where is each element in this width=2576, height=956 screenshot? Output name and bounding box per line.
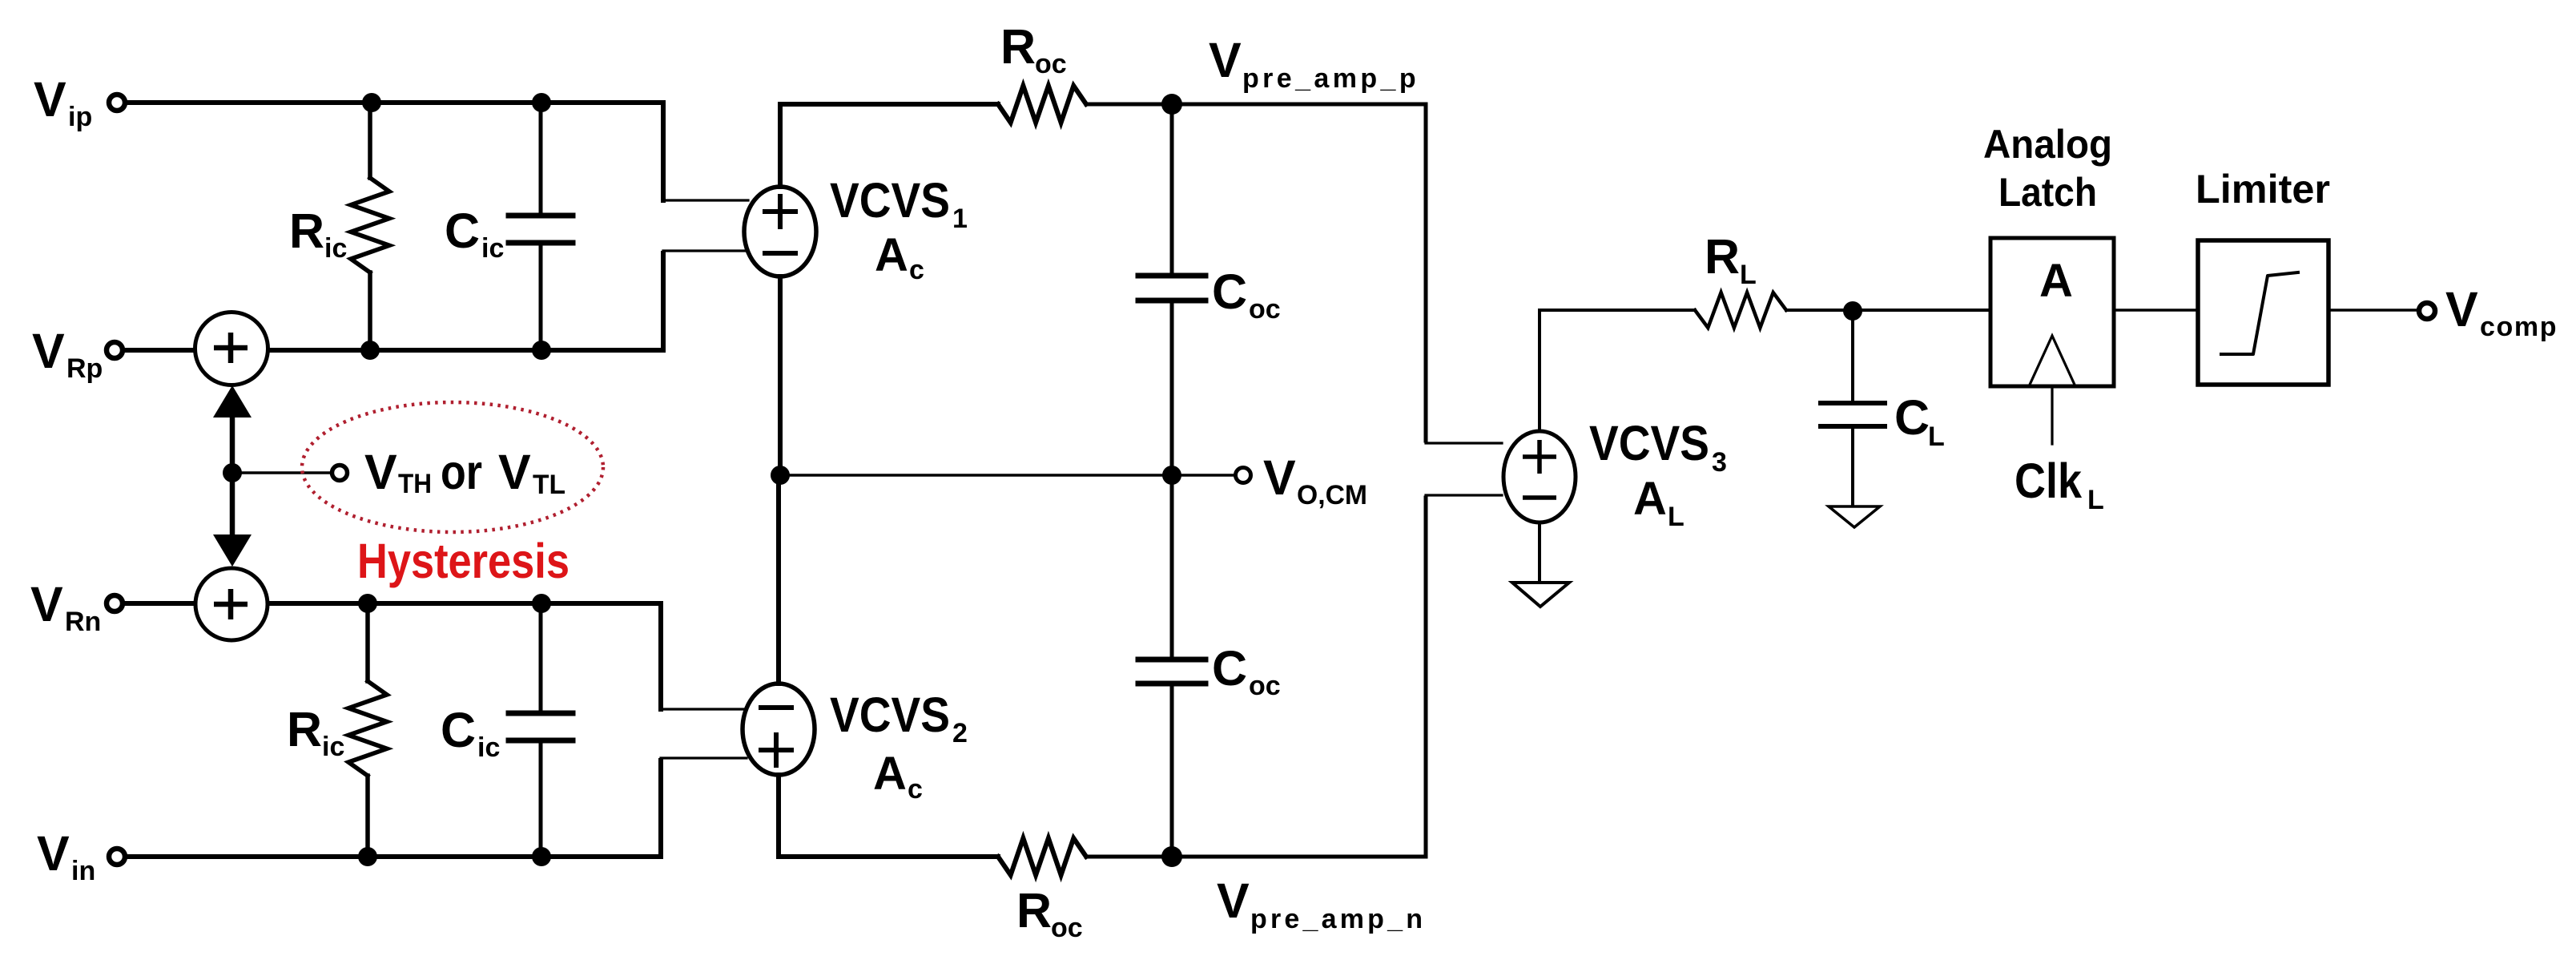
wire VRp row to VCVS1 xyxy=(268,253,663,350)
junction Vip-Ric xyxy=(362,93,381,112)
svg-text:A: A xyxy=(2039,255,2073,307)
junction Vin-Ric2 xyxy=(358,847,377,866)
svg-text:A: A xyxy=(873,748,907,800)
capacitor Cic upper xyxy=(539,103,543,212)
svg-text:ic: ic xyxy=(481,233,504,264)
limiter transfer curve xyxy=(2221,272,2298,354)
node Vin terminal xyxy=(109,849,125,865)
junction VRn-Cic2 xyxy=(532,594,551,613)
wire VCVS3 -input lead xyxy=(1426,494,1502,496)
wire VCVS3 to ground xyxy=(1538,522,1541,583)
svg-text:pre_amp_p: pre_amp_p xyxy=(1242,63,1419,94)
junction VRp-Ric xyxy=(360,341,380,360)
wire hysteresis arrow shaft xyxy=(230,397,235,556)
svg-text:pre_amp_n: pre_amp_n xyxy=(1250,904,1426,934)
junction Vin-Cic2 xyxy=(532,847,551,866)
svg-text:comp: comp xyxy=(2480,312,2558,342)
wire clock xyxy=(2051,386,2053,444)
wire VRp terminal to summer xyxy=(123,348,197,353)
block Analog Latch xyxy=(1990,238,2114,386)
capacitor Coc lower xyxy=(1170,475,1174,656)
wire Vin row xyxy=(125,760,661,857)
wire VCVS1 down to midrail xyxy=(778,276,783,475)
node VRn terminal xyxy=(107,595,123,611)
svg-text:Rp: Rp xyxy=(66,353,103,384)
hysteresis ellipse (red dotted) xyxy=(302,402,603,532)
svg-text:V: V xyxy=(1263,450,1296,505)
svg-text:L: L xyxy=(1928,422,1945,452)
resistor Roc lower xyxy=(998,838,1086,875)
node Vpre_amp_n xyxy=(1161,846,1182,867)
node VOCM terminal xyxy=(1236,468,1251,483)
svg-text:Latch: Latch xyxy=(1998,170,2097,215)
wire VCVS3 +input lead xyxy=(1426,442,1502,444)
wire Roc2 to Vpre_amp_n xyxy=(1086,498,1426,857)
svg-text:in: in xyxy=(71,856,95,886)
wire VRn row to VCVS2 xyxy=(268,603,661,709)
svg-text:2: 2 xyxy=(952,718,968,748)
svg-text:Limiter: Limiter xyxy=(2196,167,2330,212)
wire to VTH terminal xyxy=(232,471,329,474)
svg-text:ic: ic xyxy=(324,233,347,264)
node Vip terminal xyxy=(109,95,125,111)
svg-text:TH: TH xyxy=(398,469,432,499)
op source VCVS3 xyxy=(1503,431,1576,522)
svg-text:V: V xyxy=(498,445,531,499)
svg-text:oc: oc xyxy=(1051,913,1083,943)
capacitor Coc upper xyxy=(1170,104,1174,272)
svg-text:V: V xyxy=(37,826,70,881)
summing junction S1 xyxy=(195,313,268,385)
svg-text:oc: oc xyxy=(1249,671,1281,701)
summing junction S2 xyxy=(195,568,268,640)
svg-text:R: R xyxy=(1016,883,1052,938)
svg-text:L: L xyxy=(2087,485,2104,515)
ground VCVS3 xyxy=(1512,583,1569,607)
junction midrail left xyxy=(771,466,790,485)
svg-text:C: C xyxy=(1212,641,1247,696)
svg-text:C: C xyxy=(1894,390,1930,445)
svg-text:ic: ic xyxy=(322,732,344,762)
svg-text:V: V xyxy=(1217,873,1250,928)
resistor Ric upper xyxy=(368,103,372,178)
svg-text:Hysteresis: Hysteresis xyxy=(357,534,570,588)
capacitor CL xyxy=(1851,311,1854,400)
junction arrow-VTH xyxy=(223,463,242,482)
svg-text:R: R xyxy=(287,702,322,756)
svg-text:c: c xyxy=(909,255,924,285)
svg-text:L: L xyxy=(1740,260,1757,290)
svg-text:C: C xyxy=(1212,264,1247,319)
block Limiter xyxy=(2198,240,2328,385)
svg-text:R: R xyxy=(289,204,324,258)
svg-text:VCVS: VCVS xyxy=(1589,416,1709,470)
wire VCVS1 output up xyxy=(780,104,998,187)
svg-text:c: c xyxy=(908,774,923,805)
wire VCVS1 +input lead xyxy=(663,199,748,201)
svg-text:TL: TL xyxy=(533,470,566,500)
wire limiter to Vcomp xyxy=(2328,309,2416,312)
svg-text:oc: oc xyxy=(1249,294,1281,325)
svg-text:V: V xyxy=(34,72,66,127)
ground CL xyxy=(1829,506,1880,527)
svg-text:L: L xyxy=(1668,502,1684,532)
op source VCVS1 xyxy=(744,187,816,276)
svg-text:Rn: Rn xyxy=(65,607,101,637)
svg-text:or: or xyxy=(441,445,482,499)
svg-text:oc: oc xyxy=(1035,49,1067,79)
wire VCVS2 up to midrail xyxy=(776,475,781,684)
junction VRn-Ric2 xyxy=(358,594,377,613)
wire VCVS2 +input lead xyxy=(661,756,747,759)
svg-text:VCVS: VCVS xyxy=(830,688,950,742)
node VRp terminal xyxy=(107,342,123,358)
svg-text:O,CM: O,CM xyxy=(1297,480,1367,510)
svg-text:C: C xyxy=(445,204,480,258)
wire Roc to Vpreamp_p xyxy=(1086,104,1426,441)
svg-text:Clk: Clk xyxy=(2015,454,2082,508)
node VTH terminal xyxy=(332,466,348,481)
wire VCVS1 -input lead xyxy=(663,249,748,252)
svg-text:ic: ic xyxy=(477,732,500,763)
svg-text:V: V xyxy=(364,445,397,499)
svg-text:V: V xyxy=(32,324,65,378)
wire VOCM midrail xyxy=(780,474,1235,477)
svg-text:Analog: Analog xyxy=(1983,122,2112,167)
resistor Roc upper xyxy=(998,86,1086,123)
junction CL xyxy=(1843,301,1862,321)
arrowhead up xyxy=(213,385,252,417)
svg-text:VCVS: VCVS xyxy=(830,173,950,228)
wire RL to latch xyxy=(1786,309,1990,312)
capacitor Cic lower xyxy=(539,603,543,710)
node Vcomp terminal xyxy=(2419,303,2435,319)
svg-text:V: V xyxy=(30,577,63,631)
svg-text:1: 1 xyxy=(952,204,968,234)
svg-text:V: V xyxy=(2445,282,2478,337)
arrowhead down xyxy=(213,534,252,567)
junction midrail right xyxy=(1162,466,1181,485)
clock wedge xyxy=(2030,336,2075,385)
op source VCVS2 xyxy=(743,684,815,775)
svg-text:R: R xyxy=(1000,19,1036,74)
resistor RL xyxy=(1695,292,1786,328)
wire VRn terminal to summer xyxy=(123,601,197,606)
svg-text:A: A xyxy=(875,229,908,281)
svg-text:C: C xyxy=(441,703,476,757)
node Vpre_amp_p xyxy=(1161,94,1182,115)
svg-text:3: 3 xyxy=(1712,447,1727,478)
svg-text:R: R xyxy=(1705,229,1740,284)
junction Vip-Cic xyxy=(532,93,551,112)
svg-text:A: A xyxy=(1633,473,1667,525)
wire Vip row xyxy=(125,103,663,200)
svg-text:ip: ip xyxy=(68,102,92,132)
wire VCVS2 output down xyxy=(779,775,998,857)
svg-text:V: V xyxy=(1209,33,1242,87)
wire VCVS2 -input lead xyxy=(661,708,747,710)
wire VCVS3 output up xyxy=(1540,310,1695,431)
resistor Ric lower xyxy=(365,603,370,681)
junction VRp-Cic xyxy=(532,341,551,360)
wire latch to limiter xyxy=(2114,309,2198,312)
